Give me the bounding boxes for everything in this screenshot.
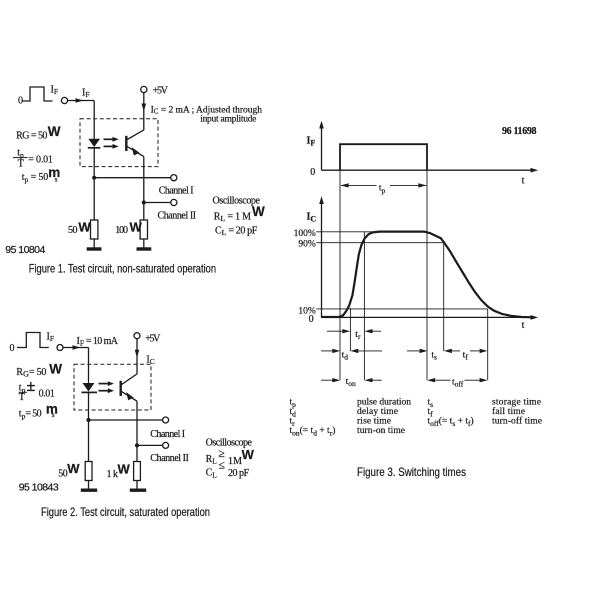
IF axis vertical: [321, 126, 323, 170]
svg-text:≤: ≤: [219, 460, 225, 472]
svg-text:tr: tr: [355, 330, 361, 341]
wire input to LED fig2: [63, 347, 89, 349]
ton dimension left arrow: [321, 379, 333, 381]
td dimension right arrow: [350, 349, 358, 353]
svg-text:0: 0: [10, 343, 15, 354]
emitter wire down fig2: [136, 401, 138, 461]
emitter wire down: [143, 157, 145, 220]
LED D2 cathode bar: [82, 391, 98, 393]
svg-text:t: t: [522, 320, 525, 331]
svg-text:W: W: [130, 219, 143, 234]
90% reference line: [316, 242, 443, 244]
ground fig2 left: [81, 489, 97, 492]
IF pulse waveform: [340, 144, 427, 170]
tr dimension left arrow: [327, 330, 343, 332]
ground fig1 right: [137, 247, 152, 250]
wire node row1 to channel I terminal: [94, 177, 171, 179]
svg-text:1 M: 1 M: [228, 456, 242, 467]
wire LED cathode down fig2: [88, 392, 90, 461]
LED cathode bar: [88, 147, 101, 149]
arrowhead IF current: [76, 98, 84, 103]
extension line pulse end: [426, 170, 428, 380]
node row2 junction dot fig2: [135, 443, 139, 447]
Channel II terminal fig2: [163, 442, 169, 448]
svg-text:+5V: +5V: [153, 85, 169, 96]
svg-text:tp: tp: [379, 184, 386, 195]
extension line pulse start: [339, 170, 341, 380]
light arrow lower fig2: [99, 390, 109, 392]
svg-text:Channel II: Channel II: [150, 453, 189, 464]
tr dimension right arrow: [365, 329, 373, 333]
Channel I terminal: [171, 175, 177, 181]
svg-text:RG= 50: RG= 50: [16, 367, 46, 379]
svg-text:tf: tf: [463, 350, 469, 361]
reference vertical 10% fall: [487, 309, 489, 380]
svg-text:RG = 50: RG = 50: [16, 131, 47, 142]
node row1 junction dot: [92, 176, 96, 180]
svg-text:turn-on time: turn-on time: [357, 426, 405, 436]
resistor R2 100 ohm: [140, 220, 147, 239]
svg-text:W: W: [118, 461, 131, 476]
tp dimension left arrow: [341, 183, 349, 187]
svg-text:1 k: 1 k: [107, 469, 119, 480]
svg-text:IF: IF: [51, 85, 59, 97]
tp dimension right arrow: [390, 184, 426, 186]
svg-text:storage time: storage time: [492, 398, 541, 408]
ts dimension right arrow / tf left arrow: [444, 349, 452, 353]
wire node row2 to channel II fig2: [137, 444, 163, 446]
reference vertical 10% rise: [349, 308, 351, 351]
input terminal fig2: [57, 345, 63, 351]
svg-text:+5V: +5V: [145, 334, 161, 345]
svg-text:W: W: [78, 219, 91, 234]
svg-text:= 0.01: = 0.01: [28, 154, 53, 165]
svg-text:s: s: [52, 410, 55, 419]
+5V supply wire down to collector: [143, 93, 145, 131]
wire node row1 to channel I fig2: [89, 419, 163, 421]
ground fig1 left: [87, 247, 102, 250]
reference vertical 90% fall: [443, 243, 445, 352]
toff dimension right arrow: [465, 379, 481, 381]
svg-text:W: W: [48, 124, 61, 139]
arrowhead IC current down: [142, 104, 147, 112]
wire R4 to ground: [136, 481, 138, 489]
Channel II terminal: [171, 199, 177, 205]
Q1 emitter arrowhead: [132, 147, 140, 155]
svg-text:IF = 10 mA: IF = 10 mA: [77, 336, 119, 348]
svg-text:delay time: delay time: [357, 407, 398, 417]
IC time axis: [322, 316, 532, 318]
svg-text:0.01: 0.01: [39, 388, 55, 399]
node row2 junction dot: [142, 200, 146, 204]
optocoupler dashed box U2: [74, 364, 151, 410]
light arrow upper fig2: [99, 383, 109, 385]
Channel I terminal fig2: [163, 417, 169, 423]
svg-text:T: T: [19, 392, 25, 403]
svg-text:0: 0: [18, 96, 23, 107]
arrowhead IC current fig2: [135, 350, 140, 358]
IC response curve: [322, 232, 533, 318]
100% reference line: [316, 231, 427, 233]
Q2 emitter arrowhead: [126, 392, 134, 400]
LED D2 triangle: [83, 383, 95, 392]
wire R1 to ground: [93, 239, 95, 248]
input terminal: [61, 97, 67, 103]
svg-text:CL = 20 pF: CL = 20 pF: [215, 225, 258, 237]
IF axis arrowhead up: [319, 121, 324, 129]
svg-text:ton: ton: [346, 377, 356, 388]
svg-text:Figure 3. Switching times: Figure 3. Switching times: [357, 465, 466, 479]
svg-text:IF: IF: [82, 88, 90, 100]
svg-text:ts: ts: [431, 350, 437, 361]
wire R3 to ground: [88, 481, 90, 489]
+5V supply wire down fig2: [136, 339, 138, 375]
svg-text:IF: IF: [47, 332, 55, 344]
svg-text:toff: toff: [452, 378, 464, 389]
wire LED cathode down to node: [93, 148, 95, 220]
phototransistor Q1 base bar: [125, 136, 127, 151]
IF time axis arrowhead: [531, 168, 539, 173]
light arrow upper: [104, 138, 114, 140]
Q1 collector diagonal: [127, 130, 144, 140]
svg-text:s: s: [55, 175, 58, 184]
IC time axis arrowhead: [531, 315, 539, 320]
+5V terminal fig2: [134, 333, 140, 339]
svg-text:50: 50: [68, 225, 78, 236]
svg-text:Channel II: Channel II: [158, 211, 197, 222]
LED D1 triangle: [88, 139, 100, 147]
Q2 emitter diagonal: [121, 391, 137, 401]
tf dimension right arrow: [470, 350, 480, 352]
resistor R4 1 k fig2: [134, 462, 141, 481]
svg-text:10%: 10%: [298, 307, 316, 317]
svg-text:100%: 100%: [294, 229, 316, 239]
arrowhead IF current fig2: [73, 345, 81, 350]
svg-text:Channel I: Channel I: [159, 185, 194, 196]
node row1 junction dot fig2: [86, 418, 90, 422]
svg-text:95 10843: 95 10843: [19, 482, 59, 494]
svg-text:90%: 90%: [298, 240, 316, 250]
svg-text:0: 0: [310, 167, 315, 178]
svg-text:td: td: [342, 350, 349, 361]
ts dimension left arrow: [407, 350, 420, 352]
phototransistor Q2 base bar: [119, 381, 121, 396]
td dimension left arrow: [321, 350, 333, 352]
svg-text:100: 100: [115, 225, 128, 236]
IC axis vertical: [321, 202, 323, 318]
wire LED anode down fig2: [88, 348, 90, 384]
svg-text:T: T: [18, 159, 24, 170]
wire node row2 to channel II terminal: [144, 202, 171, 204]
svg-text:pulse duration: pulse duration: [357, 398, 411, 408]
svg-text:96 11698: 96 11698: [502, 126, 537, 137]
svg-text:±: ±: [27, 378, 36, 395]
svg-text:95 10804: 95 10804: [5, 244, 45, 256]
ground fig2 right: [130, 489, 146, 492]
svg-text:fall time: fall time: [492, 406, 525, 417]
Q2 collector diagonal: [121, 374, 137, 385]
svg-text:50: 50: [58, 468, 67, 479]
toff dimension left arrow: [427, 378, 435, 382]
pulse source symbol V2: [17, 333, 49, 348]
wire R2 to ground: [143, 239, 145, 248]
wire LED anode down: [93, 101, 95, 139]
IC axis arrowhead up: [319, 196, 324, 204]
svg-text:Channel I: Channel I: [150, 429, 185, 440]
wire input to LED: [68, 100, 95, 102]
+5V terminal: [141, 86, 147, 92]
svg-text:rise time: rise time: [357, 417, 391, 427]
svg-text:turn-off time: turn-off time: [492, 416, 542, 427]
svg-text:Figure 2. Test circuit, satura: Figure 2. Test circuit, saturated operat…: [41, 505, 210, 519]
svg-text:W: W: [49, 361, 62, 376]
reference vertical rise end: [363, 232, 365, 380]
svg-text:RL = 1 M: RL = 1 M: [214, 212, 251, 224]
svg-text:W: W: [242, 447, 255, 462]
svg-text:Figure 1. Test circuit, non-sa: Figure 1. Test circuit, non-saturated op…: [29, 262, 216, 276]
ton dimension right arrow: [365, 378, 373, 382]
resistor R3 50 ohm fig2: [85, 462, 92, 481]
10% reference line: [316, 308, 487, 310]
IF time axis: [322, 169, 532, 171]
optocoupler dashed box U1: [80, 119, 158, 167]
svg-text:input amplitude: input amplitude: [200, 115, 256, 125]
pulse source symbol V1: [23, 87, 53, 101]
resistor R1 50 ohm: [91, 220, 98, 239]
svg-text:W: W: [67, 461, 80, 476]
svg-text:20 pF: 20 pF: [228, 468, 249, 479]
fraction bar fig2: [19, 391, 27, 393]
svg-text:t: t: [522, 176, 525, 187]
light arrow lower: [104, 145, 114, 147]
svg-text:W: W: [252, 204, 265, 219]
Q1 emitter diagonal: [127, 146, 144, 156]
svg-text:≥: ≥: [219, 448, 225, 460]
fraction bar: [13, 157, 28, 159]
